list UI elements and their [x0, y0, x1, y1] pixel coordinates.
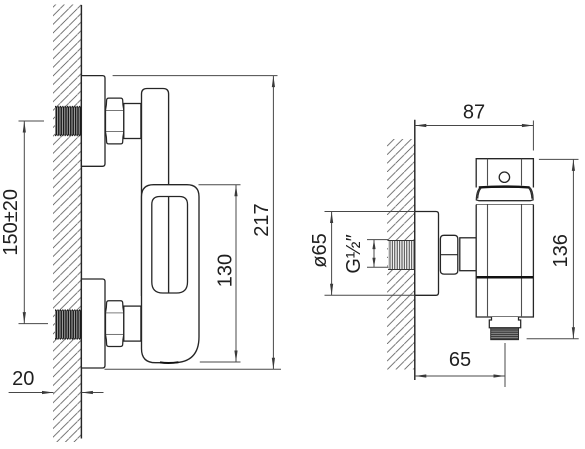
loop handle outer (left view) [142, 185, 200, 363]
dimension text 130 [215, 254, 237, 287]
adapter (right view) [460, 238, 476, 271]
dimension text 65 [449, 349, 471, 371]
wall face line right view [414, 120, 416, 380]
svg-text:G½″: G½″ [343, 234, 365, 273]
adapter upper (left view) [124, 104, 141, 139]
svg-text:130: 130 [215, 254, 237, 287]
hex nut upper (left view) [106, 98, 124, 144]
svg-text:87: 87 [463, 101, 485, 123]
wall hatch left view [53, 5, 81, 443]
screw circle (right view) [499, 172, 509, 182]
dimension 130 line [199, 185, 241, 362]
dimension text 217 [251, 203, 273, 236]
svg-text:65: 65 [449, 349, 471, 371]
dimension ø65 line [325, 212, 415, 296]
body seam line (right view) [477, 276, 533, 279]
dimension 150±20 line [19, 121, 49, 324]
faucet main body (right view) [476, 205, 533, 317]
dimension text 20 [12, 368, 34, 390]
handle lever dome (right view) [476, 187, 533, 201]
svg-text:150±20: 150±20 [0, 189, 22, 256]
svg-text:20: 20 [12, 368, 34, 390]
threaded supply pipe lower (left view) [55, 310, 81, 339]
escutcheon plate upper (left view) [81, 76, 105, 167]
threaded supply pipe upper (left view) [55, 107, 81, 136]
faucet body bar (left view) [142, 89, 169, 297]
escutcheon plate (right view) [415, 212, 439, 296]
dimension 136 line [527, 159, 579, 338]
wall hatch right view [387, 139, 415, 370]
outlet bump at handle bottom (left view) [160, 361, 179, 364]
svg-text:136: 136 [550, 234, 572, 267]
threaded outlet (right view) [491, 328, 519, 340]
outlet collar (right view) [489, 317, 520, 328]
body bar edge visible through cutout [168, 197, 170, 293]
adapter lower (left view) [124, 306, 141, 341]
svg-text:217: 217 [251, 203, 273, 236]
escutcheon plate lower (left view) [81, 279, 105, 368]
dimension 217 line [105, 76, 282, 370]
faucet top block (right view) [476, 159, 533, 188]
dimension text 87 [463, 101, 485, 123]
threaded supply pipe (right view) [388, 241, 415, 270]
hex nut (right view) [440, 235, 457, 274]
svg-text:ø65: ø65 [309, 233, 331, 267]
dimension text G1/2" [343, 234, 365, 273]
loop handle cutout (left view) [152, 197, 188, 294]
wall face line left view [80, 5, 82, 439]
dimension 87 line [415, 121, 534, 151]
dimension G half inch line [367, 240, 389, 268]
dimension text ø65 [309, 233, 331, 267]
collar under handle (right view) [476, 204, 533, 206]
hex nut lower (left view) [106, 301, 124, 347]
dimension text 136 [550, 234, 572, 267]
dimension 65 line [415, 343, 505, 387]
dimension text 150±20 [0, 189, 22, 256]
dimension 20 (wall thickness) [9, 391, 104, 394]
